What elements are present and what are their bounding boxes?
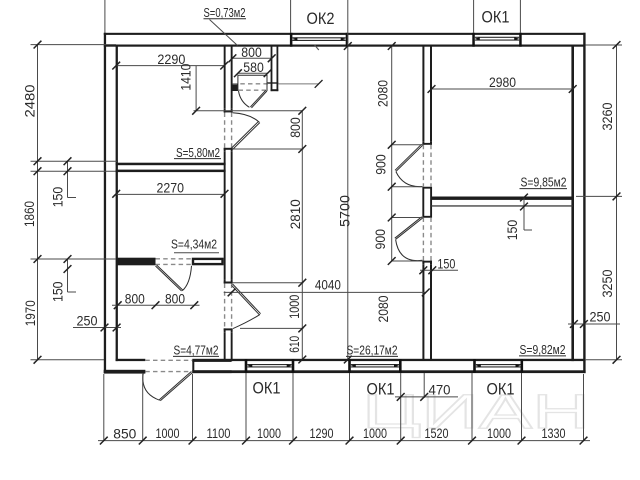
left ext y=161.2	[31, 160, 118, 162]
right ext y=196.4	[576, 195, 622, 197]
leader S=0,73	[210, 20, 238, 46]
svg-text:5700: 5700	[336, 195, 352, 227]
exterior right wall inner line	[571, 45, 574, 362]
ext y=328.4	[240, 327, 304, 329]
bottom window B2: posts	[348, 359, 351, 373]
svg-text:3260: 3260	[599, 102, 615, 130]
door B leaf	[233, 284, 261, 314]
lobby door V right leaf (double)	[252, 91, 267, 108]
svg-text:150: 150	[49, 281, 65, 302]
right ext y=45	[586, 44, 623, 46]
dim 1410 vertical	[195, 66, 197, 111]
svg-text:ОК1: ОК1	[367, 380, 395, 399]
dashed opening door D	[422, 145, 424, 187]
5700 ticks	[344, 42, 352, 50]
dimension texts	[21, 44, 615, 441]
2270 ticks	[112, 190, 120, 198]
ext y=186.7	[392, 186, 423, 188]
4040 ticks	[228, 289, 236, 297]
ext y=149	[233, 148, 304, 150]
svg-text:ОК1: ОК1	[482, 8, 510, 27]
exterior bottom wall outer line	[104, 370, 146, 373]
svg-text:1000: 1000	[257, 425, 281, 441]
svg-text:ОК1: ОК1	[487, 380, 515, 399]
800/800 ticks	[114, 301, 122, 309]
window labels	[253, 8, 515, 399]
dashed opening door C	[156, 258, 192, 260]
W4 cap above door D	[422, 141, 424, 145]
svg-text:900: 900	[373, 154, 389, 175]
svg-text:ОК1: ОК1	[253, 379, 281, 398]
svg-text:S=4,34м2: S=4,34м2	[171, 238, 217, 252]
svg-text:S=9,85м2: S=9,85м2	[521, 176, 567, 190]
bottom ext x=293	[292, 373, 294, 441]
svg-text:1970: 1970	[22, 300, 38, 326]
bottom ext x=472	[471, 373, 473, 441]
svg-text:800: 800	[241, 44, 262, 60]
svg-text:1000: 1000	[363, 425, 387, 441]
left 250 dim line	[73, 327, 121, 329]
ext/chain line 5700 full	[347, 0, 349, 360]
entrance door F leaf	[160, 373, 192, 401]
lobby dim 580 line	[238, 72, 268, 74]
svg-text:800: 800	[125, 291, 145, 307]
ext y=282.7	[233, 282, 304, 284]
right 150 bracket (W5)	[523, 197, 525, 230]
bottom window B3 glazing	[476, 364, 521, 366]
underline S=4,34	[174, 252, 219, 254]
lobby 800 ticks	[229, 54, 237, 62]
dashed lobby door rect bottom	[239, 89, 267, 91]
door B arc	[233, 314, 260, 328]
dashed opening door A	[145, 84, 431, 372]
left ext y=259	[31, 258, 116, 260]
bottom window B3: posts	[473, 359, 476, 373]
bottom-left wall right of entrance door	[192, 360, 231, 362]
door E arc	[396, 240, 423, 261]
svg-text:S=26,17м2: S=26,17м2	[347, 344, 398, 358]
chain 302 ticks	[298, 107, 306, 115]
right chain vertical	[616, 45, 618, 360]
bottom ext x=142.7	[142, 373, 144, 441]
dim 4040 line	[224, 291, 426, 293]
window OK2 glazing lines	[292, 37, 345, 39]
lobby bottom-left stub	[232, 84, 238, 92]
exterior top wall outer line	[104, 33, 586, 35]
lobby door V left line	[239, 91, 250, 107]
W4 cap below door E	[422, 261, 432, 263]
left ext y=44.6	[31, 44, 117, 46]
dim 470 line	[395, 396, 458, 398]
bottom ext x=521.5	[521, 373, 523, 441]
right ext y=359.8	[586, 359, 622, 361]
left 150 bracket lower	[67, 259, 69, 292]
dim 2290 line	[116, 65, 224, 67]
hall chain vertical x=302.3	[301, 111, 303, 360]
exterior right wall outer line	[583, 33, 585, 373]
svg-text:1330: 1330	[542, 425, 566, 441]
svg-text:2810: 2810	[287, 199, 303, 229]
svg-text:2270: 2270	[157, 179, 185, 195]
svg-text:580: 580	[243, 59, 264, 75]
svg-text:1100: 1100	[207, 425, 231, 441]
bottom ext x=192.5	[192, 374, 194, 441]
470 ticks	[397, 393, 405, 401]
door A leaf (top-left room)	[143, 75, 423, 401]
left 150 bracket upper	[67, 161, 69, 197]
2290 ticks	[112, 62, 120, 70]
W4 lower segment	[422, 264, 424, 360]
dim 800+800 line (middle-left)	[112, 304, 200, 306]
svg-text:S=5,80м2: S=5,80м2	[176, 146, 220, 160]
area labels	[171, 6, 567, 358]
bottom ext x=349.5	[349, 373, 351, 441]
W3 pier between doors	[193, 259, 223, 264]
bottom ext x=103.8	[103, 374, 105, 441]
left chain vertical	[37, 45, 39, 360]
lobby 580 ticks	[234, 69, 242, 77]
door C arc	[182, 266, 191, 291]
bottom window B1: posts	[245, 359, 248, 373]
ext y=110.8	[194, 110, 303, 112]
lobby door jamb rectangle	[238, 75, 267, 91]
left ext y=171.2	[31, 170, 116, 172]
W1 cap above door B	[224, 280, 226, 284]
svg-text:1000: 1000	[156, 425, 180, 441]
1410 tick bottom	[192, 107, 200, 115]
exterior left wall outer line	[104, 33, 106, 373]
W1 cap below door A	[224, 148, 233, 150]
door C leaf	[156, 266, 182, 291]
W5 150 ticks	[520, 194, 528, 202]
W1 cap below door B	[224, 328, 233, 330]
svg-text:800: 800	[287, 117, 303, 138]
svg-text:470: 470	[429, 382, 451, 398]
interior wall W5 right rooms divider	[431, 197, 573, 200]
exterior left wall inner line	[116, 45, 118, 362]
bottom window B2 glazing	[351, 364, 399, 366]
window OK2 center tick	[315, 45, 319, 50]
bottom ext x=246	[245, 373, 247, 441]
interior wall W4 center-right (x 422.4-432) upper segment	[422, 45, 424, 142]
bottom window B1 glazing	[247, 364, 291, 366]
svg-text:S=4,77м2: S=4,77м2	[174, 344, 219, 358]
W1 lower segment	[224, 332, 226, 361]
lobby level ext line to right	[278, 83, 318, 85]
svg-text:1860: 1860	[21, 201, 37, 227]
svg-text:2980: 2980	[489, 74, 516, 90]
bottom chain ticks	[100, 437, 108, 445]
svg-text:4040: 4040	[315, 277, 341, 293]
right 250 dim line	[568, 323, 620, 325]
right room chain x=391.7	[391, 46, 393, 261]
svg-text:ОК2: ОК2	[307, 9, 335, 28]
svg-text:1520: 1520	[425, 425, 449, 441]
svg-text:2080: 2080	[375, 80, 391, 107]
svg-text:900: 900	[372, 229, 388, 250]
interior wall W1 center-left (x 223.7-232.6) upper segment	[224, 45, 226, 109]
svg-text:800: 800	[165, 291, 185, 307]
ext x=400.7 (win B2 right to bottom chain)	[400, 373, 402, 441]
150 right wall ticks	[419, 266, 427, 274]
svg-text:150: 150	[49, 187, 65, 208]
window OK1 top glazing lines	[475, 36, 519, 38]
lobby ext tick	[315, 80, 323, 88]
lobby right wall upper	[271, 45, 273, 92]
svg-text:2080: 2080	[375, 295, 391, 322]
dashed opening entrance door F	[145, 359, 192, 361]
svg-text:1410: 1410	[178, 63, 194, 90]
tick marks (45 deg slashes)	[34, 41, 621, 445]
exterior top wall inner line	[104, 45, 586, 47]
ext y=261	[392, 260, 423, 262]
ext y=144.8 (to wall)	[392, 144, 423, 146]
bottom-left protruding wall left of entrance door	[104, 370, 146, 374]
lobby dim 800 line	[232, 57, 271, 59]
door A arc	[233, 113, 260, 122]
dashed lobby bottom opening	[233, 83, 271, 85]
dim 2270 line	[116, 193, 224, 195]
svg-text:2480: 2480	[21, 84, 37, 117]
svg-text:S=0,73м2: S=0,73м2	[204, 6, 246, 20]
ext line window OK1 left	[473, 0, 475, 33]
svg-text:1000: 1000	[487, 425, 511, 441]
ext line above top-left corner	[104, 0, 106, 33]
ext line window OK1 right	[519, 0, 521, 33]
door E leaf	[396, 218, 423, 239]
entrance door F arc	[143, 373, 160, 400]
svg-text:S=9,82м2: S=9,82м2	[520, 343, 566, 357]
svg-text:150: 150	[504, 220, 520, 241]
svg-text:610: 610	[286, 336, 302, 353]
svg-text:250: 250	[590, 309, 611, 325]
interior wall W3 row (middle-left room bottom) left solid segment	[117, 258, 156, 266]
svg-text:1290: 1290	[310, 425, 334, 441]
svg-text:1000: 1000	[286, 295, 302, 319]
window OK1 top: posts	[472, 33, 475, 47]
door D arc	[396, 172, 423, 187]
ext x=424.2	[423, 373, 425, 398]
svg-text:250: 250	[77, 312, 98, 328]
bottom chain line	[98, 440, 590, 442]
interior wall W2 double horizontal (top-left room bottom)	[116, 163, 226, 166]
dim 2980 line	[432, 88, 573, 90]
W4 pier between doors D and E (outlined)	[423, 188, 431, 217]
dashed opening door B	[224, 284, 226, 329]
ext y=217.5	[392, 217, 423, 219]
svg-text:3250: 3250	[599, 269, 615, 297]
svg-text:850: 850	[113, 425, 136, 441]
W1 mid segment	[224, 151, 226, 279]
exterior bottom wall inner line	[116, 359, 146, 361]
dim 150 wall line (right)	[420, 269, 458, 271]
window OK2 top: posts	[290, 33, 293, 47]
left ext y=359.8	[31, 359, 105, 361]
door D leaf	[396, 145, 423, 171]
bottom ext x=583.5	[583, 374, 585, 441]
svg-text:150: 150	[437, 256, 455, 272]
right room chain ticks	[388, 42, 396, 50]
ext line window OK2 left	[290, 0, 292, 33]
W1 cap above door A	[224, 109, 226, 113]
dashed opening door E	[422, 218, 424, 261]
lobby right wall lower step	[271, 89, 279, 91]
2980 ticks	[428, 85, 436, 93]
